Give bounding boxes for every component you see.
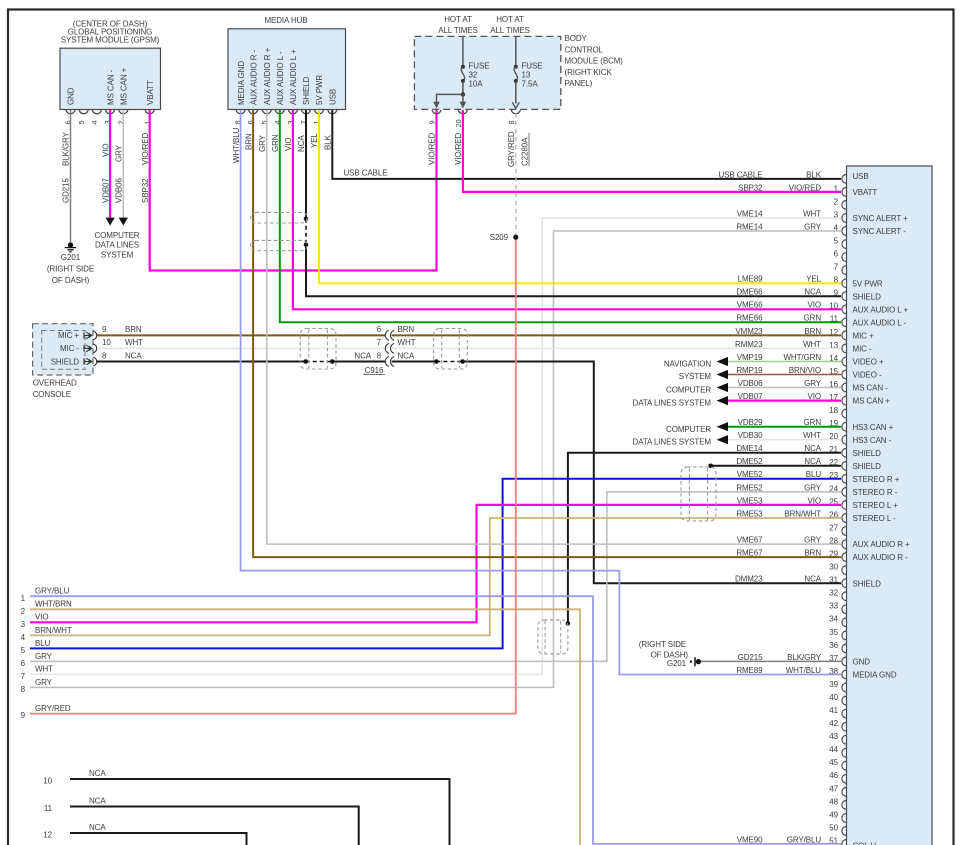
svg-text:NCA: NCA — [89, 823, 106, 832]
svg-text:10A: 10A — [469, 79, 484, 88]
svg-text:VIO/RED: VIO/RED — [141, 132, 150, 165]
svg-text:9: 9 — [102, 325, 107, 334]
svg-text:11: 11 — [44, 804, 53, 813]
svg-text:MIC +: MIC + — [58, 331, 79, 340]
media hub wire color labels (rotated) — [232, 127, 333, 163]
svg-text:WHT/GRN: WHT/GRN — [783, 353, 821, 362]
svg-text:1: 1 — [21, 594, 26, 603]
svg-text:39: 39 — [829, 680, 838, 689]
svg-text:RME53: RME53 — [736, 509, 763, 518]
svg-text:GRY: GRY — [804, 379, 822, 388]
svg-text:GRY: GRY — [804, 222, 822, 231]
svg-text:12: 12 — [43, 831, 52, 840]
junction dot DME14 at connector — [566, 621, 571, 626]
computer data lines system text (ms can) — [633, 386, 712, 408]
svg-text:SYSTEM: SYSTEM — [679, 372, 712, 381]
svg-text:20: 20 — [454, 119, 463, 127]
svg-text:GD215: GD215 — [738, 653, 763, 662]
fuse 13 symbol — [512, 37, 519, 108]
arrow down VDB06 — [119, 218, 128, 226]
svg-text:9: 9 — [428, 120, 437, 124]
svg-text:30: 30 — [829, 563, 838, 572]
svg-text:ALL TIMES: ALL TIMES — [438, 26, 478, 35]
svg-text:45: 45 — [829, 758, 838, 767]
svg-text:FUSE: FUSE — [469, 61, 490, 70]
svg-text:VIO: VIO — [35, 613, 48, 622]
wire VDB30 WHT hs3 can- — [728, 439, 841, 441]
svg-text:USB CABLE: USB CABLE — [344, 169, 388, 178]
svg-text:MEDIA GND: MEDIA GND — [853, 671, 897, 680]
svg-text:MODULE (BCM): MODULE (BCM) — [565, 57, 624, 66]
wire VDB06 GRY to data lines — [122, 110, 124, 219]
wire VDB07 VIO ms can+ — [728, 400, 841, 402]
svg-text:RMM23: RMM23 — [735, 340, 763, 349]
svg-text:50: 50 — [829, 823, 838, 832]
svg-text:VDB30: VDB30 — [738, 431, 763, 440]
inline connector hub upper — [251, 212, 308, 223]
wire VMM23 BRN mic+ — [97, 334, 841, 336]
connector label C2280A (rotated, underlined) — [521, 133, 530, 166]
BCM pin numbers 9 20 8 (rotated) — [428, 119, 516, 127]
svg-text:VMP19: VMP19 — [737, 353, 763, 362]
junction dot connector top — [304, 217, 309, 222]
svg-text:10: 10 — [43, 777, 52, 786]
svg-text:VDB06: VDB06 — [738, 379, 763, 388]
svg-text:WHT: WHT — [125, 338, 143, 347]
BCM dashed module box — [414, 36, 560, 109]
svg-text:8: 8 — [507, 120, 516, 124]
junction dot — [460, 359, 465, 364]
svg-text:6: 6 — [377, 325, 382, 334]
svg-text:NCA: NCA — [297, 135, 306, 152]
svg-text:FUSE: FUSE — [522, 61, 543, 70]
arrow down VDB07 — [106, 218, 115, 226]
media hub title — [264, 16, 307, 25]
svg-text:RME52: RME52 — [736, 483, 763, 492]
svg-text:7: 7 — [377, 338, 382, 347]
GPSM wire color labels BLK/GRY VIO GRY VIO/RED (rotated) — [62, 131, 150, 166]
svg-text:5V PWR: 5V PWR — [853, 279, 883, 288]
svg-text:5: 5 — [21, 646, 26, 655]
svg-text:NCA: NCA — [89, 797, 106, 806]
svg-text:STEREO L +: STEREO L + — [853, 501, 899, 510]
junction dot connector bottom — [304, 243, 309, 248]
left row numbers and labels 1-9 — [21, 587, 72, 721]
svg-text:SHIELD: SHIELD — [853, 449, 882, 458]
svg-text:WHT: WHT — [803, 209, 821, 218]
inline connector shield mid — [538, 620, 568, 654]
svg-text:HS3 CAN -: HS3 CAN - — [853, 436, 892, 445]
arrow to system VDB29 GRN hs3 can+ — [717, 422, 729, 431]
svg-text:32: 32 — [469, 70, 478, 79]
wire DME66 NCA shield upper — [305, 110, 307, 219]
GPSM module box (global positioning system module) — [60, 48, 161, 109]
wire VME67 GRY aux audio R+ — [267, 110, 841, 544]
svg-text:BODY: BODY — [565, 34, 588, 43]
svg-text:AUX AUDIO R -: AUX AUDIO R - — [249, 49, 258, 105]
svg-text:GRY/BLU: GRY/BLU — [35, 587, 70, 596]
svg-text:2: 2 — [834, 197, 839, 206]
svg-text:SHIELD: SHIELD — [853, 462, 882, 471]
svg-text:SYSTEM: SYSTEM — [101, 251, 134, 260]
svg-text:VIO/RED: VIO/RED — [428, 132, 437, 165]
svg-text:SHIELD: SHIELD — [853, 292, 882, 301]
svg-text:ALL TIMES: ALL TIMES — [490, 26, 530, 35]
svg-text:USB: USB — [853, 172, 869, 181]
svg-text:47: 47 — [829, 784, 838, 793]
svg-text:MIC -: MIC - — [60, 344, 79, 353]
svg-text:VIO/RED: VIO/RED — [454, 132, 463, 165]
BCM name text — [565, 34, 624, 88]
junction dot — [303, 359, 308, 364]
svg-text:STEREO R +: STEREO R + — [853, 475, 900, 484]
svg-text:18: 18 — [829, 406, 838, 415]
wire WHT/BRN row2 — [30, 609, 580, 845]
svg-text:SHIELD: SHIELD — [853, 579, 882, 588]
svg-text:NCA: NCA — [125, 351, 142, 360]
svg-text:VIDEO +: VIDEO + — [853, 358, 885, 367]
svg-text:SYNC ALERT -: SYNC ALERT - — [853, 227, 907, 236]
wire DME52 NCA shield row22 — [711, 465, 841, 467]
svg-text:6: 6 — [834, 250, 839, 259]
C916 inline connector cups — [385, 330, 394, 366]
svg-text:GRY: GRY — [258, 134, 267, 152]
splice S209 — [513, 235, 518, 240]
wire VDB06 GRY ms can- — [728, 387, 841, 389]
BCM wire color labels (rotated) — [428, 131, 516, 167]
svg-text:COMPUTER: COMPUTER — [95, 231, 140, 240]
svg-text:49: 49 — [829, 810, 838, 819]
svg-text:VIO: VIO — [284, 138, 293, 151]
svg-text:VBATT: VBATT — [853, 188, 878, 197]
svg-text:NAVIGATION: NAVIGATION — [664, 360, 711, 369]
svg-text:MIC -: MIC - — [853, 345, 872, 354]
svg-text:STEREO R -: STEREO R - — [853, 488, 898, 497]
right side of dash / G201 text — [639, 640, 689, 668]
BCM pin cups 9 20 8 — [432, 110, 521, 114]
wire USB cable BLK — [332, 110, 841, 179]
wire RME67 BRN aux audio R- — [253, 110, 841, 557]
svg-text:(RIGHT KICK: (RIGHT KICK — [565, 68, 613, 77]
svg-text:MS CAN +: MS CAN + — [120, 67, 129, 105]
navigation system text — [664, 360, 712, 382]
fuse 32 symbol — [433, 37, 466, 109]
svg-text:CONTROL: CONTROL — [565, 45, 604, 54]
svg-text:NCA: NCA — [398, 351, 415, 360]
svg-text:7: 7 — [21, 672, 26, 681]
G201 location text — [47, 253, 94, 285]
inline connector stereo rows — [681, 467, 716, 521]
svg-text:(RIGHT SIDE: (RIGHT SIDE — [47, 265, 94, 274]
svg-text:AUX AUDIO R +: AUX AUDIO R + — [263, 47, 272, 105]
GPSM pin cups — [66, 110, 154, 114]
wire VDB07 VIO to data lines — [109, 110, 111, 219]
wire VME66 VIO aux audio L+ — [293, 110, 841, 309]
wire RME52 GRY stereo R- row6 — [30, 492, 841, 662]
wire NCA row11 — [70, 807, 359, 845]
inline connector mic pair B — [434, 329, 468, 370]
overhead console text — [33, 378, 77, 399]
media hub module box — [228, 29, 346, 110]
wire RME53 BRN/WHT stereo L- row4 — [30, 518, 841, 635]
module box: media/audio module connector (right side) — [847, 166, 933, 845]
svg-text:GRN: GRN — [271, 134, 280, 152]
wire RME14 GRY row4 long — [30, 231, 841, 687]
svg-text:MS CAN +: MS CAN + — [853, 397, 891, 406]
svg-text:13: 13 — [522, 70, 531, 79]
svg-text:GND: GND — [853, 658, 871, 667]
svg-text:BRN: BRN — [398, 325, 415, 334]
svg-text:S209: S209 — [490, 233, 509, 242]
svg-text:HS3 CAN +: HS3 CAN + — [853, 423, 894, 432]
svg-text:27: 27 — [829, 523, 838, 532]
svg-text:VIDEO -: VIDEO - — [853, 371, 883, 380]
left row numbers and labels 10-12 — [43, 769, 106, 840]
svg-text:STEREO L -: STEREO L - — [853, 514, 897, 523]
svg-text:VME14: VME14 — [737, 209, 763, 218]
svg-text:2: 2 — [21, 607, 26, 616]
svg-text:COMPUTER: COMPUTER — [666, 425, 711, 434]
svg-text:9: 9 — [21, 711, 26, 720]
svg-text:4: 4 — [21, 633, 26, 642]
wire RMP19 BRN/VIO video- — [728, 374, 841, 376]
svg-text:5V PWR: 5V PWR — [315, 75, 324, 105]
svg-text:GRY: GRY — [35, 652, 53, 661]
wire NCA row10 — [70, 779, 450, 845]
junction dot — [330, 359, 335, 364]
svg-text:WHT/BLU: WHT/BLU — [786, 666, 822, 675]
svg-text:SHIELD: SHIELD — [302, 76, 311, 105]
module pin name labels — [853, 172, 911, 845]
svg-text:34: 34 — [829, 615, 838, 624]
GPSM pin numbers 6 5 4 3 2 1 — [64, 120, 152, 124]
wire mic shield NCA dashed seg1 — [306, 361, 333, 363]
svg-text:33: 33 — [829, 602, 838, 611]
svg-text:7: 7 — [834, 263, 839, 272]
ground symbol G201 — [65, 242, 76, 252]
svg-text:YEL: YEL — [310, 133, 319, 148]
wire mic shield NCA dashed seg2 — [436, 361, 462, 363]
svg-text:42: 42 — [829, 719, 838, 728]
svg-text:BLK/GRY: BLK/GRY — [787, 653, 822, 662]
svg-text:GRY: GRY — [804, 483, 822, 492]
computer data lines system text (left) — [95, 231, 140, 260]
svg-text:7.5A: 7.5A — [522, 79, 539, 88]
svg-text:40: 40 — [829, 693, 838, 702]
svg-text:RME14: RME14 — [736, 222, 763, 231]
svg-text:BLK/GRY: BLK/GRY — [62, 131, 71, 166]
arrow to system VDB30 WHT hs3 can- — [717, 435, 729, 444]
arrow to system RMP19 BRN/VIO video- — [717, 370, 729, 379]
arrow to system VMP19 WHT/GRN video+ — [717, 357, 729, 366]
svg-text:BRN/WHT: BRN/WHT — [35, 626, 72, 635]
svg-text:SYSTEM MODULE (GPSM): SYSTEM MODULE (GPSM) — [61, 35, 160, 44]
usb cable labels — [344, 169, 388, 178]
svg-text:WHT: WHT — [398, 338, 416, 347]
junction dot — [434, 359, 439, 364]
wire RMM23 WHT mic- — [97, 347, 841, 349]
svg-text:BRN: BRN — [244, 133, 253, 150]
svg-text:WHT/BLU: WHT/BLU — [232, 127, 241, 163]
svg-text:COMPUTER: COMPUTER — [666, 386, 711, 395]
svg-text:VDB07: VDB07 — [101, 178, 110, 203]
GPSM circuit id labels GD215 VDB07 VDB06 SBP32 (rotated) — [62, 178, 150, 203]
wire SBP32 VIO/RED gpsm-to-bcm — [150, 110, 437, 271]
C916 labels — [354, 325, 415, 375]
wire RME89 WHT/BLU media gnd — [241, 110, 841, 675]
connector pin cups rows USB and 1-51 — [842, 175, 846, 845]
svg-text:GRY/RED: GRY/RED — [35, 704, 71, 713]
svg-text:35: 35 — [829, 628, 838, 637]
svg-text:MIC +: MIC + — [853, 332, 874, 341]
computer data lines system text (hs3 can) — [633, 425, 712, 447]
svg-text:WHT: WHT — [803, 431, 821, 440]
svg-text:DATA LINES SYSTEM: DATA LINES SYSTEM — [633, 398, 712, 407]
svg-text:MEDIA GND: MEDIA GND — [237, 61, 246, 105]
svg-text:OF DASH): OF DASH) — [52, 276, 90, 285]
svg-text:6: 6 — [21, 659, 26, 668]
svg-text:8: 8 — [377, 351, 382, 360]
fuse 13 text — [522, 61, 543, 88]
GPSM title text — [61, 19, 160, 44]
wire NCA row12 — [70, 833, 247, 845]
svg-text:AUX AUDIO L +: AUX AUDIO L + — [853, 305, 909, 314]
svg-text:3: 3 — [21, 620, 26, 629]
wire RME66 GRN aux audio L- — [280, 110, 841, 322]
svg-text:VIO: VIO — [101, 144, 110, 157]
svg-text:NCA: NCA — [354, 351, 371, 360]
svg-text:36: 36 — [829, 641, 838, 650]
junction dot DME52 at connector — [708, 464, 713, 469]
arrow to system VDB06 GRY ms can- — [717, 383, 729, 392]
wire circuit id and color labels — [718, 170, 821, 844]
svg-text:WHT: WHT — [803, 340, 821, 349]
svg-text:PANEL): PANEL) — [565, 79, 593, 88]
svg-text:RMP19: RMP19 — [736, 366, 763, 375]
svg-text:AUX AUDIO L -: AUX AUDIO L - — [276, 51, 285, 105]
svg-text:BRN: BRN — [125, 325, 142, 334]
svg-text:GRY: GRY — [115, 144, 124, 162]
svg-text:GRY: GRY — [35, 678, 53, 687]
wire GRY/RED dashed above S209 — [515, 110, 517, 237]
media hub pin numbers — [234, 120, 321, 124]
wire VME14 WHT row3 long — [30, 218, 841, 674]
svg-text:C916: C916 — [365, 366, 384, 375]
svg-text:GRY/RED: GRY/RED — [507, 131, 516, 167]
svg-text:AUX AUDIO L +: AUX AUDIO L + — [289, 49, 298, 105]
svg-text:GD215: GD215 — [62, 178, 71, 203]
arrow to system VDB07 VIO ms can+ — [717, 396, 729, 405]
svg-text:G201: G201 — [667, 659, 687, 668]
svg-text:BLU: BLU — [35, 639, 51, 648]
svg-text:(RIGHT SIDE: (RIGHT SIDE — [639, 640, 686, 649]
media hub pin cups — [236, 110, 337, 114]
wire mic shield NCA solid segs — [97, 362, 841, 584]
svg-text:HOT AT: HOT AT — [444, 15, 472, 24]
svg-text:SYNC ALERT +: SYNC ALERT + — [853, 214, 909, 223]
media hub pin name labels — [237, 47, 338, 105]
S209 label — [490, 233, 509, 242]
svg-text:8: 8 — [102, 351, 107, 360]
svg-text:RME89: RME89 — [736, 666, 763, 675]
svg-text:WHT: WHT — [35, 665, 53, 674]
svg-text:DATA LINES: DATA LINES — [95, 241, 139, 250]
svg-text:46: 46 — [829, 771, 838, 780]
wire DME66 NCA dashed in connector — [305, 219, 307, 245]
svg-text:CONSOLE: CONSOLE — [33, 390, 71, 399]
svg-text:AUX AUDIO L -: AUX AUDIO L - — [853, 318, 907, 327]
svg-text:COL H: COL H — [853, 842, 877, 845]
svg-text:C2280A: C2280A — [521, 137, 530, 166]
svg-text:VBATT: VBATT — [146, 80, 155, 105]
svg-text:BRN/VIO: BRN/VIO — [789, 366, 821, 375]
svg-text:5: 5 — [77, 120, 86, 124]
svg-text:VME67: VME67 — [737, 536, 763, 545]
inline connector mic pair A — [300, 329, 336, 370]
svg-text:32: 32 — [829, 589, 838, 598]
wire GD215 BLK/GRY gnd row37 — [701, 660, 841, 662]
svg-text:BLK: BLK — [324, 134, 333, 150]
wire VMP19 WHT/GRN video+ — [728, 361, 841, 363]
svg-text:8: 8 — [21, 685, 26, 694]
wire VME52 BLU stereo R+ row5 — [30, 479, 841, 649]
wire SBP32 VIO/RED to pin1 — [463, 110, 841, 192]
overhead console pin labels and terminals — [51, 325, 143, 366]
svg-text:41: 41 — [829, 706, 838, 715]
svg-text:NCA: NCA — [89, 769, 106, 778]
GPSM pin name labels GND / MS CAN - / MS CAN + / VBATT — [67, 67, 155, 105]
wire VME90 GRY/BLU row1 to pin51 — [30, 596, 841, 844]
hot at all times labels — [438, 15, 530, 35]
wire GD215 BLK/GRY gnd — [70, 110, 72, 242]
svg-text:AUX AUDIO R +: AUX AUDIO R + — [853, 540, 911, 549]
wire VME53 VIO stereo L+ row3 — [30, 505, 841, 622]
svg-text:WHT/BRN: WHT/BRN — [35, 600, 72, 609]
svg-text:USB: USB — [329, 89, 338, 105]
svg-text:MS CAN -: MS CAN - — [106, 69, 115, 105]
svg-text:SBP32: SBP32 — [141, 178, 150, 203]
svg-text:5: 5 — [834, 237, 839, 246]
svg-text:OVERHEAD: OVERHEAD — [33, 378, 77, 387]
inline connector hub lower — [251, 240, 308, 250]
svg-text:43: 43 — [829, 732, 838, 741]
svg-text:GRY: GRY — [804, 536, 822, 545]
wire VDB29 GRN hs3 can+ — [728, 426, 841, 428]
svg-text:DATA LINES SYSTEM: DATA LINES SYSTEM — [633, 437, 712, 446]
svg-text:MEDIA HUB: MEDIA HUB — [264, 16, 307, 25]
wire LME89 YEL 5v pwr — [319, 110, 841, 283]
svg-text:10: 10 — [102, 338, 111, 347]
svg-text:OF DASH): OF DASH) — [651, 650, 689, 659]
wire GRY/RED row9 to S209 — [30, 237, 516, 713]
wire DME14 NCA shield row21 — [568, 453, 841, 624]
svg-text:48: 48 — [829, 797, 838, 806]
fuse 32 text — [469, 61, 490, 88]
svg-text:AUX AUDIO R -: AUX AUDIO R - — [853, 553, 909, 562]
ground pigtail G201 right — [690, 657, 701, 666]
svg-text:VDB06: VDB06 — [115, 178, 124, 203]
svg-text:BRN/WHT: BRN/WHT — [784, 509, 821, 518]
svg-text:SHIELD: SHIELD — [51, 357, 80, 366]
svg-text:44: 44 — [829, 745, 838, 754]
svg-text:4: 4 — [90, 120, 99, 124]
pin numbers 1-51 — [829, 184, 838, 845]
svg-text:G201: G201 — [61, 253, 81, 262]
svg-text:MS CAN -: MS CAN - — [853, 384, 889, 393]
wire DME66 NCA shield lower — [306, 245, 841, 296]
svg-text:HOT AT: HOT AT — [496, 15, 524, 24]
overhead console dashed box — [33, 324, 93, 375]
